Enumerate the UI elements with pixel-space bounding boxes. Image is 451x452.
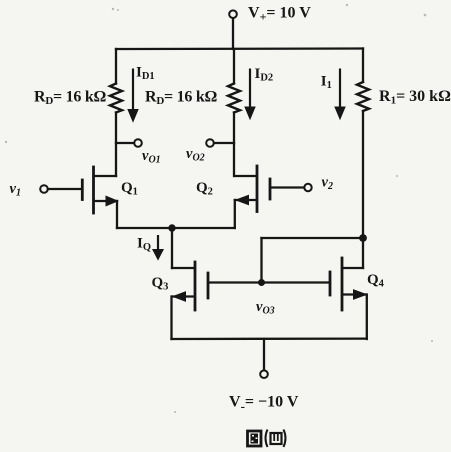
- node V- terminal: [260, 370, 268, 378]
- current arrow IQ: [153, 235, 163, 260]
- wire right branch down to Q4 drain node: [362, 111, 364, 268]
- svg-text:RD= 16 kΩ: RD= 16 kΩ: [145, 89, 218, 108]
- resistor RD1 = 16 kOhm: [110, 84, 122, 113]
- transistor Q2: [235, 166, 312, 228]
- node V+ terminal: [229, 10, 237, 18]
- transistor Q4: [330, 258, 367, 339]
- svg-text:R1= 30 kΩ: R1= 30 kΩ: [379, 88, 451, 107]
- wire left branch top: [115, 49, 117, 84]
- wire V+ drop: [232, 18, 234, 49]
- node gate line junction: [258, 279, 265, 286]
- current arrow I1: [335, 69, 345, 120]
- resistor RD2 = 16 kOhm: [228, 84, 240, 113]
- wire right branch top: [362, 49, 364, 83]
- node source junction: [168, 224, 175, 231]
- wire V- tap: [263, 339, 265, 370]
- transistor Q3: [172, 262, 209, 339]
- wire IQ drop: [171, 228, 173, 268]
- wire top bus: [116, 47, 363, 50]
- current arrow ID2: [245, 69, 255, 120]
- wire mid branch top: [233, 49, 235, 84]
- wire gate feed from Q4 drain node: [209, 238, 363, 283]
- wire mid branch mid: [233, 113, 235, 177]
- wire common source rail with node: [117, 227, 235, 229]
- node Q4 drain junction: [359, 234, 367, 242]
- resistor R1 = 30 kOhm: [357, 82, 369, 111]
- wire bottom rail: [172, 337, 367, 340]
- node vO1 terminal: [134, 139, 142, 147]
- caption figure (four) glyphs: [248, 430, 286, 448]
- wire gate line Q3-Q4: [209, 281, 329, 283]
- wire vO1 tap: [116, 142, 134, 144]
- transistor Q1: [40, 167, 117, 228]
- wire left branch mid: [115, 113, 117, 177]
- svg-text:V+= 10 V: V+= 10 V: [248, 5, 311, 24]
- wire vO2 tap: [214, 142, 234, 144]
- svg-text:RD= 16 kΩ: RD= 16 kΩ: [34, 89, 107, 108]
- current arrow ID1: [128, 69, 138, 122]
- node vO2 terminal: [206, 139, 214, 147]
